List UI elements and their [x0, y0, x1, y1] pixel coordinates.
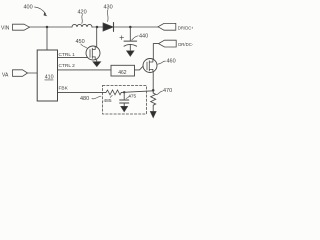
svg-text:400: 400: [24, 5, 33, 11]
svg-text:440: 440: [139, 34, 148, 40]
ground (470): [150, 111, 156, 117]
svg-text:DR/DC−: DR/DC−: [178, 42, 193, 47]
wire cap branch: [129, 27, 131, 41]
capacitor 440: [124, 40, 137, 42]
wire inductor to diode: [92, 26, 103, 28]
dashed box 480: [103, 85, 147, 114]
wire CTRL1 gate: [58, 56, 88, 58]
wire block power drop: [46, 27, 48, 50]
wire CTRL2 to resistor box: [58, 69, 112, 71]
wire cap 475 drop: [123, 92, 125, 100]
terminal VIN: [13, 24, 30, 30]
wire box to gate Q460: [135, 66, 144, 70]
diode 430: [103, 23, 113, 31]
svg-text:485: 485: [104, 98, 112, 104]
svg-text:VIN: VIN: [1, 26, 10, 32]
wire cap to ground: [129, 45, 131, 51]
node D junction dot: [152, 89, 155, 92]
leader 475: [126, 96, 131, 99]
svg-text:470: 470: [163, 88, 172, 94]
capacitor 475: [120, 99, 129, 101]
wire FBK to node D: [121, 91, 153, 93]
terminal VA: [13, 70, 28, 77]
leader 480: [92, 96, 101, 99]
ground (475): [121, 106, 128, 112]
transistor Q460: [143, 59, 157, 73]
ground (Q450): [93, 62, 101, 67]
svg-text:462: 462: [118, 70, 127, 76]
leader 460: [158, 61, 166, 64]
resistor 470: [151, 93, 156, 112]
node C junction dot: [129, 26, 132, 29]
inductor 420: [72, 24, 92, 27]
svg-text:480: 480: [80, 96, 89, 102]
wire top rail left: [30, 26, 73, 28]
leader 420: [81, 15, 84, 24]
svg-text:VA: VA: [2, 72, 9, 78]
node A junction dot: [46, 26, 49, 29]
leader 470: [156, 91, 162, 95]
leader 485: [110, 95, 112, 97]
node E junction dot: [123, 91, 125, 93]
node B junction dot: [96, 26, 99, 29]
leader arrow 400: [35, 7, 46, 14]
wire Q460 drain to DR/DC-: [153, 44, 158, 60]
svg-text:CTRL 2: CTRL 2: [59, 63, 76, 69]
wire cap 475 to ground: [123, 103, 125, 107]
svg-text:FBK: FBK: [59, 86, 69, 92]
resistor 485: [106, 90, 121, 95]
svg-text:DR/DC+: DR/DC+: [178, 25, 193, 30]
wire FBK: [58, 91, 107, 93]
wire drain Q450: [96, 27, 98, 47]
wire VA to block: [28, 72, 38, 74]
controller block 410: [37, 50, 57, 101]
svg-text:460: 460: [167, 59, 176, 65]
leader 450: [81, 44, 88, 49]
terminal DR/DC-: [159, 40, 177, 47]
wire Q460 source down: [152, 72, 154, 93]
wire source Q450: [96, 60, 98, 62]
transistor Q450: [86, 46, 100, 60]
terminal DR/DC+: [158, 23, 176, 30]
svg-text:450: 450: [76, 39, 85, 45]
plus polarity mark: [120, 36, 124, 40]
leader 430: [106, 10, 109, 22]
wire diode to output: [114, 26, 159, 28]
ground (cap 440): [127, 51, 135, 57]
resistor box 462: [111, 65, 135, 76]
leader 440: [132, 36, 138, 40]
